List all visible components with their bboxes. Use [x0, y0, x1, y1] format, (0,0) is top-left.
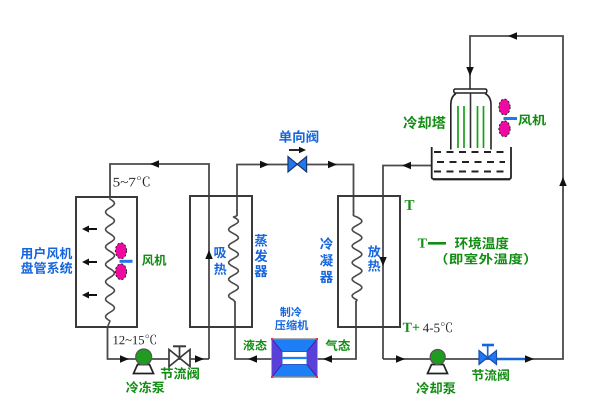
label: cooling tower — [403, 116, 445, 130]
arrow: vapor flow right before check valve — [260, 161, 269, 169]
cooling tower basin — [432, 147, 511, 179]
arrow: gas flow left into compressor — [323, 355, 332, 363]
arrow: right toward cooling pump — [396, 355, 405, 363]
label: user fan coil system line1 — [21, 247, 73, 259]
label: fan (left) — [142, 254, 166, 266]
wire: cooling water downcomer through condenser — [383, 166, 432, 360]
arrow: down into cooling tower — [466, 67, 474, 76]
arrow: return flow right before pump — [120, 355, 129, 363]
compressor corner dots — [271, 338, 318, 378]
wire: gas line condenser to compressor — [317, 301, 356, 359]
wire: refrigerant top run through check valve — [237, 165, 354, 217]
arrow: down inside condenser — [379, 257, 387, 266]
evaporator box — [190, 196, 252, 327]
condenser box — [338, 196, 400, 327]
label: T node — [405, 200, 415, 210]
throttle valve right (blue) — [479, 351, 497, 365]
arrow: right after blue pipe — [525, 355, 534, 363]
label: i.e. outdoor temperature — [444, 253, 528, 265]
label: T+ — [403, 323, 419, 332]
label: user fan coil system line2 — [21, 262, 72, 274]
fan blades left (fan coil) — [120, 260, 133, 263]
label: fan (right) — [518, 114, 546, 125]
label: chilled pump — [126, 381, 164, 393]
label: refrigeration compressor line1 — [280, 307, 301, 317]
label: temp 12~15C — [114, 335, 156, 345]
arrow: up right riser — [559, 177, 567, 186]
wire: chilled water supply riser and top run 5~7C — [110, 164, 209, 359]
air flow arrow 1 — [86, 228, 97, 230]
air flow arrow 3 — [86, 294, 97, 296]
arrow: cooling water left from tank — [402, 162, 411, 170]
label: evaporator — [254, 234, 267, 277]
label: check valve — [279, 130, 318, 143]
label: 4-5C — [423, 322, 452, 332]
condenser coil — [352, 216, 362, 302]
check valve (one-way valve) — [288, 157, 307, 173]
fan coil heat exchanger coil — [106, 197, 115, 327]
label: liquid state — [243, 339, 266, 350]
label: throttle valve right — [472, 369, 509, 381]
compressor body — [272, 339, 317, 377]
wire: liquid line evaporator to compressor — [235, 301, 272, 359]
label: ambient temperature — [455, 237, 509, 250]
cooling water pump base — [428, 365, 448, 374]
arrow: left along top run — [508, 32, 517, 40]
chilled water pump base — [134, 365, 154, 374]
arrow: supply flow left — [150, 160, 159, 168]
chilled water pump — [136, 349, 152, 365]
fan blades right (cooling tower) — [504, 117, 518, 120]
wire: chilled water return bottom-left run — [108, 327, 210, 359]
label: condenser — [320, 237, 333, 283]
cooling tower lid — [454, 89, 487, 93]
label: throttle valve left — [161, 367, 199, 379]
cooling tower body — [451, 94, 491, 150]
label: refrigeration compressor line2 — [275, 320, 308, 331]
compressor side bevels — [272, 339, 282, 377]
blue pipe segment after right throttle valve — [497, 358, 526, 361]
arrow: up inside evaporator — [205, 250, 213, 259]
arrow: return flow right after valve — [195, 355, 204, 363]
label: cooling pump — [416, 382, 455, 395]
arrow: vapor flow right after check valve — [328, 161, 337, 169]
basin water dashes — [434, 152, 508, 172]
arrow: liquid flow left into evaporator — [248, 355, 257, 363]
cooling tower center pipe — [470, 93, 472, 148]
throttle valve left — [169, 350, 190, 367]
wire: cooling water bottom-right run — [383, 36, 563, 359]
label: temp 5~7C — [114, 176, 150, 186]
cooling tower fill lines — [458, 106, 484, 148]
label: absorb heat — [214, 247, 226, 275]
label: release heat — [368, 245, 381, 271]
label: T legend — [418, 239, 427, 248]
air flow arrow 2 — [86, 261, 97, 263]
label: gas state — [326, 339, 351, 351]
evaporator coil — [229, 216, 239, 302]
compressor windows — [282, 352, 307, 365]
legend dash — [428, 242, 446, 245]
check valve direction arrow — [289, 149, 300, 151]
cooling water pump — [430, 350, 445, 365]
fan coil unit box — [76, 197, 137, 327]
